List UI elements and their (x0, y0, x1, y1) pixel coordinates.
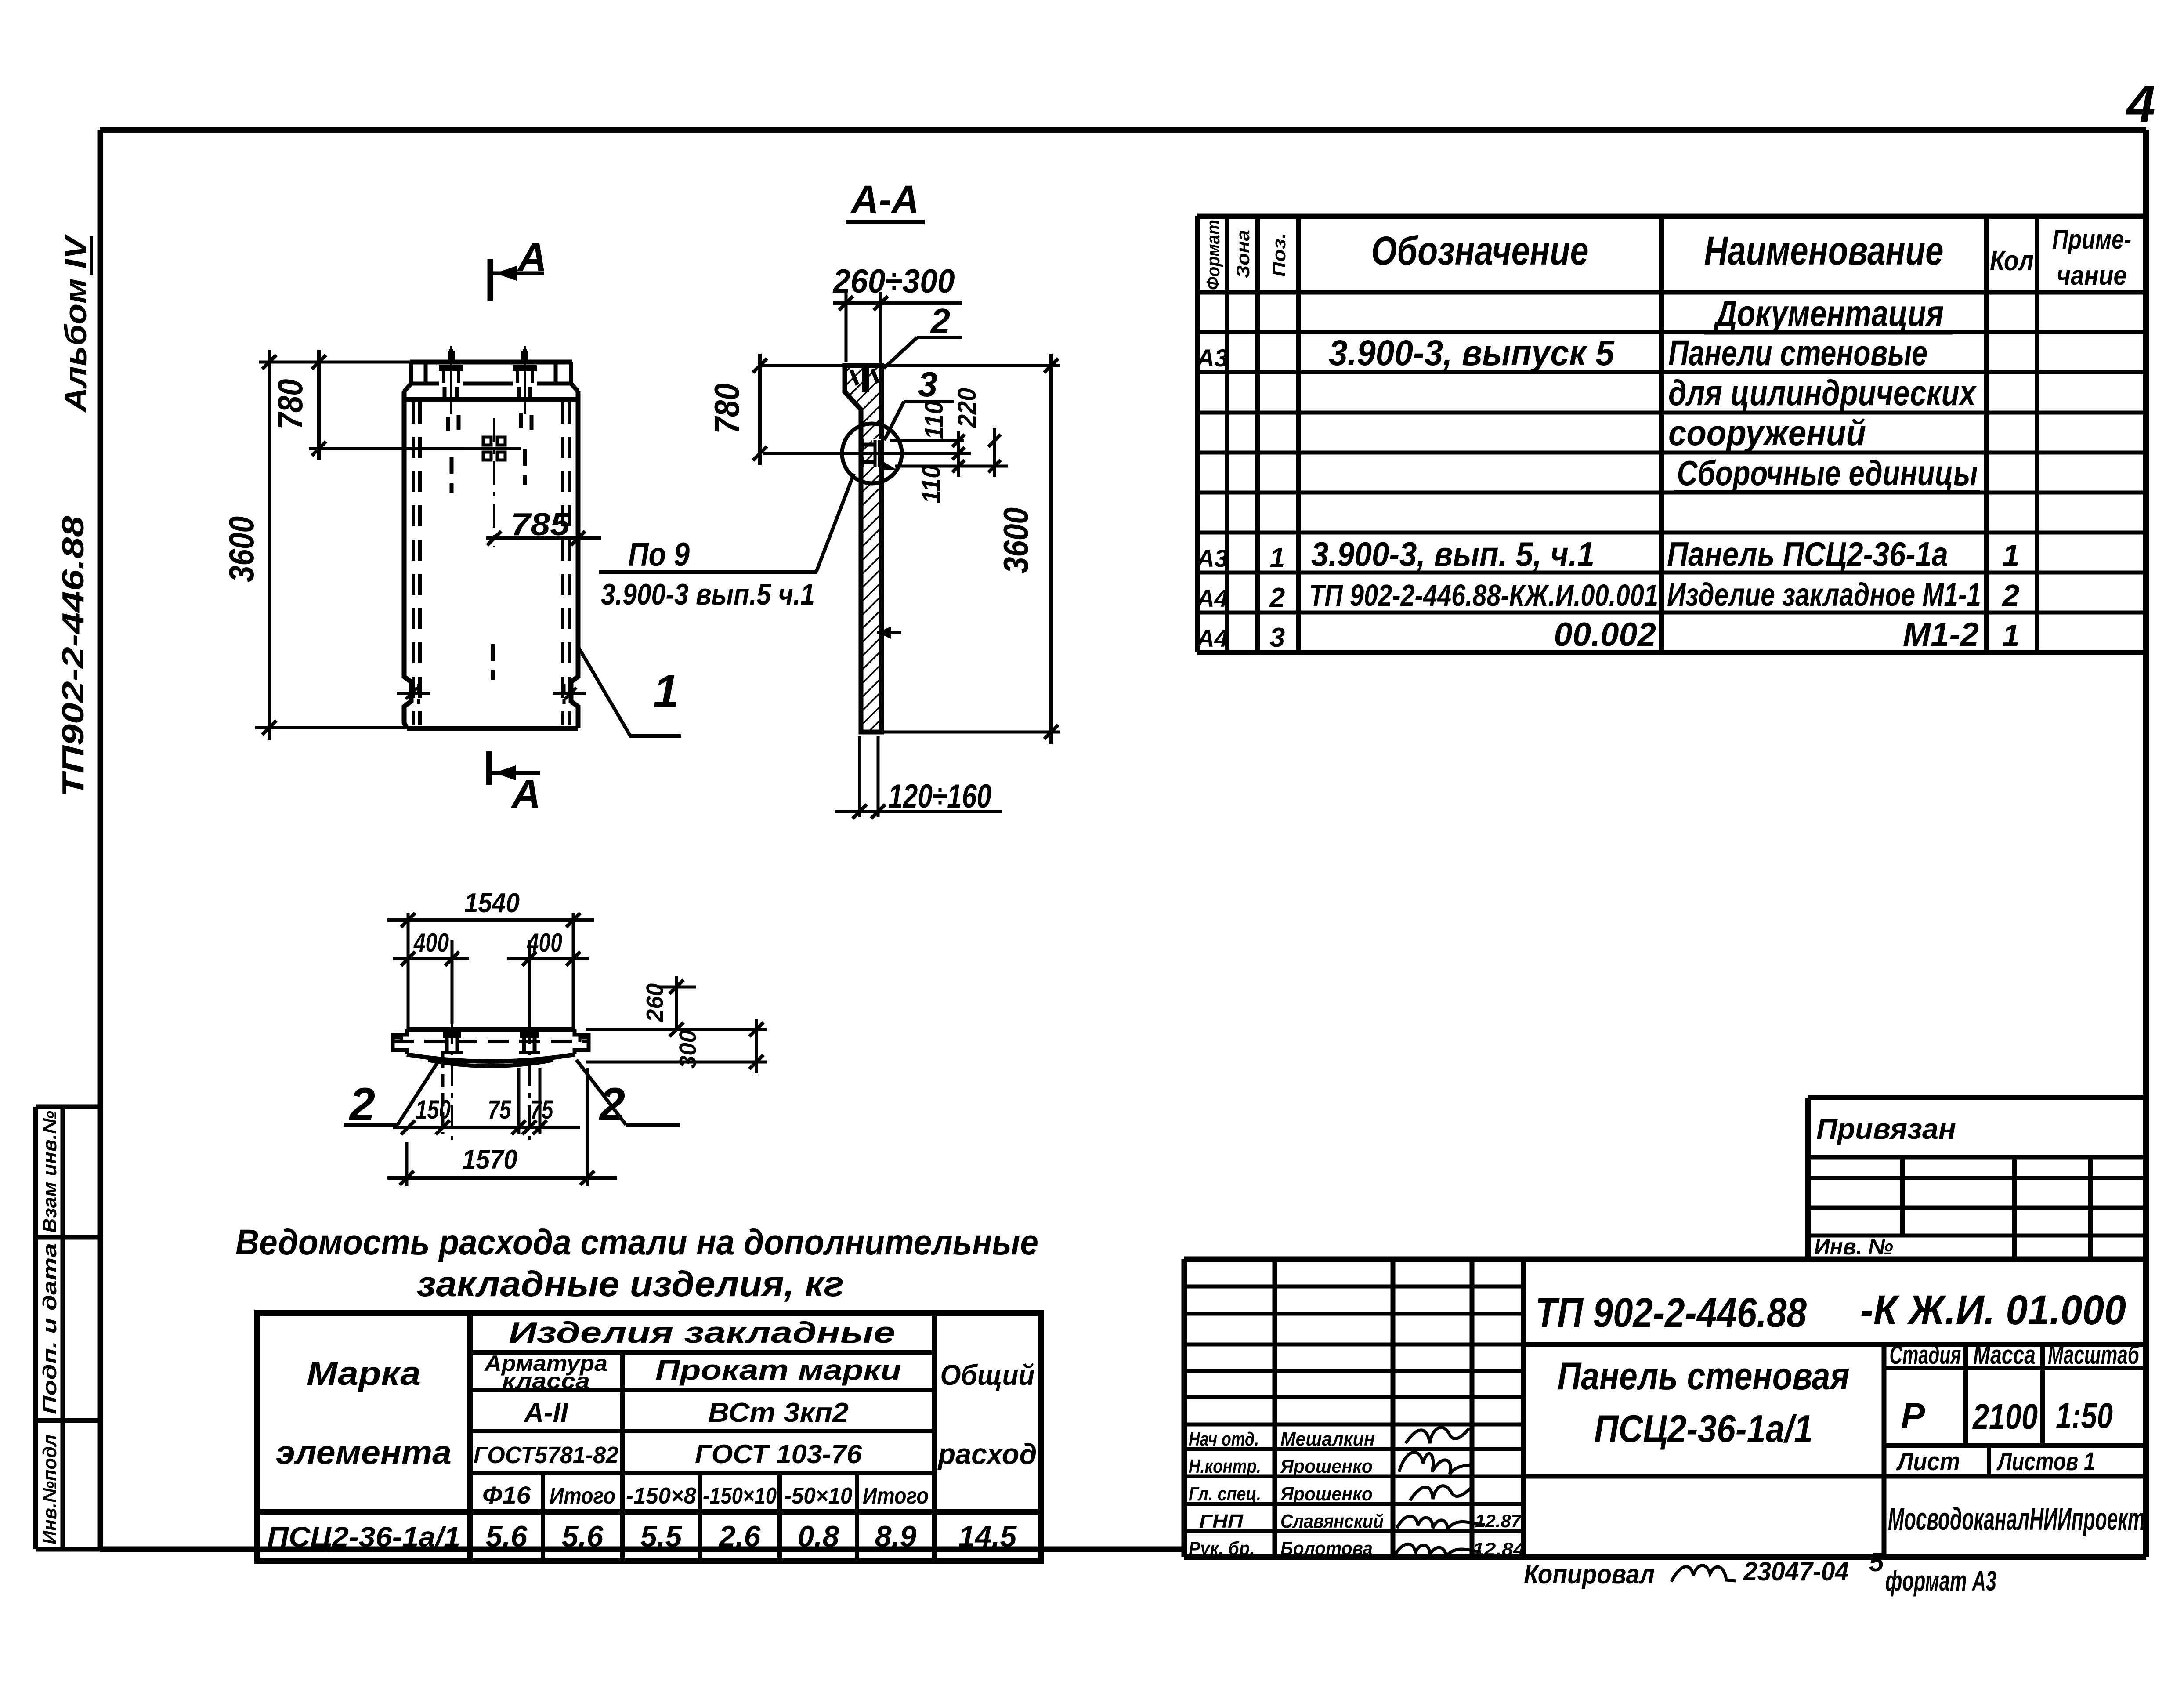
svg-text:ГНП: ГНП (1199, 1511, 1244, 1532)
svg-text:260÷300: 260÷300 (832, 263, 955, 300)
svg-text:2: 2 (1269, 583, 1285, 613)
svg-text:Кол: Кол (1990, 245, 2034, 276)
svg-text:ВСт 3кп2: ВСт 3кп2 (708, 1398, 849, 1428)
svg-text:2: 2 (2002, 578, 2020, 612)
svg-text:1:50: 1:50 (2056, 1396, 2113, 1436)
svg-text:5: 5 (1869, 1547, 1884, 1577)
svg-text:Нач отд.: Нач отд. (1189, 1428, 1259, 1450)
svg-text:ТП902-2-446.88: ТП902-2-446.88 (56, 516, 90, 797)
svg-text:Панель ПСЦ2-36-1а: Панель ПСЦ2-36-1а (1667, 535, 1948, 573)
svg-text:14,5: 14,5 (958, 1520, 1017, 1553)
svg-text:00.002: 00.002 (1554, 616, 1656, 653)
svg-text:Инв.№подл: Инв.№подл (39, 1435, 61, 1544)
svg-text:75: 75 (488, 1095, 512, 1124)
svg-text:МосводоканалНИИпроект: МосводоканалНИИпроект (1888, 1502, 2145, 1537)
svg-text:2: 2 (930, 301, 951, 341)
svg-text:По 9: По 9 (628, 536, 690, 573)
svg-text:Панели стеновые: Панели стеновые (1668, 333, 1927, 373)
svg-text:120÷160: 120÷160 (888, 778, 991, 815)
svg-text:Приме-: Приме- (2052, 225, 2131, 255)
svg-text:150: 150 (416, 1095, 451, 1124)
svg-text:Обозначение: Обозначение (1371, 228, 1589, 273)
svg-text:3: 3 (918, 365, 938, 404)
svg-text:элемента: элемента (276, 1434, 452, 1471)
svg-text:Ярошенко: Ярошенко (1280, 1483, 1373, 1505)
svg-text:расход: расход (937, 1438, 1037, 1470)
svg-text:110: 110 (917, 465, 946, 504)
svg-text:А3: А3 (1196, 344, 1228, 372)
svg-text:5,6: 5,6 (562, 1520, 604, 1553)
svg-text:Поз.: Поз. (1269, 233, 1289, 277)
svg-text:чание: чание (2057, 261, 2127, 291)
svg-text:Славянский: Славянский (1280, 1511, 1384, 1532)
svg-text:А: А (511, 772, 541, 816)
svg-text:3.900-3, вып. 5, ч.1: 3.900-3, вып. 5, ч.1 (1311, 535, 1595, 573)
svg-text:5,5: 5,5 (640, 1520, 683, 1553)
svg-text:Болотова: Болотова (1280, 1538, 1373, 1559)
svg-text:Итого: Итого (863, 1483, 929, 1509)
svg-text:-К Ж.И. 01.000: -К Ж.И. 01.000 (1860, 1287, 2126, 1333)
svg-text:Привязан: Привязан (1816, 1112, 1956, 1145)
svg-text:Формат: Формат (1203, 220, 1223, 290)
svg-text:А4: А4 (1196, 624, 1228, 652)
svg-text:Панель стеновая: Панель стеновая (1558, 1354, 1850, 1398)
svg-text:0,8: 0,8 (798, 1520, 839, 1553)
svg-text:3: 3 (1270, 623, 1285, 653)
svg-text:Копировал: Копировал (1524, 1559, 1655, 1590)
svg-text:1540: 1540 (464, 888, 520, 918)
svg-text:Инв. №: Инв. № (1814, 1234, 1893, 1260)
svg-text:3600: 3600 (996, 507, 1035, 573)
svg-text:ГОСТ 103-76: ГОСТ 103-76 (695, 1439, 862, 1469)
svg-text:780: 780 (271, 379, 310, 430)
svg-text:1: 1 (2003, 538, 2020, 572)
svg-text:Итого: Итого (550, 1483, 615, 1509)
svg-text:400: 400 (527, 928, 562, 957)
svg-text:Масштаб: Масштаб (2048, 1340, 2140, 1370)
svg-text:Ведомость расхода стали на доп: Ведомость расхода стали на дополнительны… (235, 1222, 1038, 1262)
svg-text:785: 785 (511, 507, 570, 542)
svg-text:Документация: Документация (1713, 293, 1944, 334)
svg-text:4: 4 (2126, 75, 2155, 133)
svg-text:300: 300 (675, 1030, 701, 1069)
svg-text:Ф16: Ф16 (482, 1481, 531, 1509)
svg-text:1: 1 (653, 666, 679, 717)
svg-text:Мешалкин: Мешалкин (1280, 1428, 1375, 1450)
svg-text:Листов 1: Листов 1 (1996, 1447, 2095, 1476)
svg-text:Ярошенко: Ярошенко (1280, 1456, 1373, 1477)
svg-text:формат А3: формат А3 (1885, 1565, 1996, 1597)
svg-text:А-А: А-А (850, 178, 919, 222)
svg-text:Лист: Лист (1896, 1447, 1960, 1476)
svg-text:780: 780 (707, 384, 746, 434)
svg-text:3600: 3600 (222, 516, 261, 582)
svg-text:ТП 902-2-446.88: ТП 902-2-446.88 (1535, 1290, 1807, 1336)
svg-text:-50×10: -50×10 (785, 1483, 853, 1509)
svg-text:Наименование: Наименование (1704, 228, 1944, 273)
svg-text:-150×10: -150×10 (703, 1483, 777, 1509)
svg-text:220: 220 (953, 388, 981, 428)
svg-text:Рук. бр.: Рук. бр. (1189, 1538, 1255, 1559)
svg-text:А4: А4 (1196, 584, 1228, 612)
svg-text:А: А (517, 235, 547, 279)
svg-text:12.87: 12.87 (1475, 1511, 1522, 1531)
svg-text:ПСЦ2-36-1а/1: ПСЦ2-36-1а/1 (267, 1521, 460, 1553)
svg-text:2,6: 2,6 (718, 1520, 761, 1553)
svg-text:3.900-3 вып.5 ч.1: 3.900-3 вып.5 ч.1 (601, 578, 815, 611)
svg-text:75: 75 (530, 1095, 554, 1124)
svg-text:1570: 1570 (462, 1145, 517, 1175)
svg-text:12.84: 12.84 (1472, 1539, 1525, 1559)
svg-text:закладные изделия, кг: закладные изделия, кг (417, 1264, 844, 1304)
svg-text:ГОСТ5781-82: ГОСТ5781-82 (474, 1442, 618, 1468)
svg-text:1: 1 (2003, 618, 2020, 652)
svg-text:Подп. и дата: Подп. и дата (39, 1243, 61, 1414)
svg-text:5,6: 5,6 (486, 1520, 528, 1553)
svg-text:сооружений: сооружений (1668, 413, 1866, 453)
svg-text:2100: 2100 (1972, 1397, 2038, 1437)
svg-text:А3: А3 (1196, 544, 1228, 572)
svg-text:Марка: Марка (307, 1355, 421, 1392)
svg-text:260: 260 (642, 983, 668, 1022)
svg-text:Прокат марки: Прокат марки (655, 1354, 901, 1386)
svg-text:Масса: Масса (1973, 1340, 2036, 1370)
svg-text:Н.контр.: Н.контр. (1189, 1456, 1261, 1477)
svg-text:2: 2 (349, 1079, 375, 1130)
svg-text:400: 400 (413, 928, 449, 957)
svg-text:А-II: А-II (523, 1398, 569, 1428)
svg-text:Р: Р (1901, 1396, 1925, 1436)
svg-text:Изделие закладное М1-1: Изделие закладное М1-1 (1667, 576, 1981, 613)
svg-text:М1-2: М1-2 (1903, 616, 1979, 653)
svg-text:ПСЦ2-36-1а/1: ПСЦ2-36-1а/1 (1594, 1407, 1813, 1450)
svg-text:Зона: Зона (1233, 230, 1253, 278)
svg-text:3.900-3, выпуск 5: 3.900-3, выпуск 5 (1329, 333, 1615, 373)
svg-text:Общий: Общий (940, 1359, 1035, 1391)
svg-text:для цилиндрических: для цилиндрических (1668, 373, 1977, 413)
svg-text:Гл. спец.: Гл. спец. (1189, 1483, 1261, 1505)
svg-text:Стадия: Стадия (1890, 1340, 1961, 1370)
svg-text:Изделия закладные: Изделия закладные (509, 1316, 895, 1349)
svg-text:-150×8: -150×8 (626, 1483, 696, 1509)
svg-text:8,9: 8,9 (875, 1520, 917, 1553)
svg-text:ТП 902-2-446.88-КЖ.И.00.001: ТП 902-2-446.88-КЖ.И.00.001 (1309, 578, 1658, 612)
svg-text:110: 110 (920, 401, 948, 439)
svg-text:1: 1 (1270, 543, 1285, 573)
svg-text:Альбом IV: Альбом IV (58, 234, 93, 413)
svg-text:Взам инв.№: Взам инв.№ (39, 1111, 61, 1233)
svg-text:класса: класса (502, 1369, 590, 1393)
svg-text:Сборочные единицы: Сборочные единицы (1677, 453, 1978, 493)
svg-text:23047-04: 23047-04 (1743, 1557, 1849, 1586)
